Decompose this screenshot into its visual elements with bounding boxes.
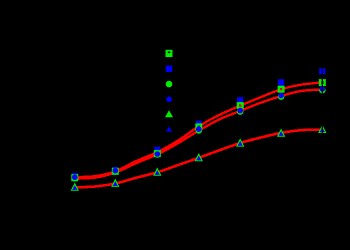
marker: blue filled square, point 1 <box>72 173 78 179</box>
marker: green open triangle, point 7 <box>319 127 325 133</box>
red fit curve: circles series <box>75 90 322 179</box>
marker: blue filled square, point 6 <box>278 79 284 85</box>
marker: green filled circle, point 6 <box>278 93 285 100</box>
marker: blue filled circle, point 7 <box>320 86 326 92</box>
right axis spine (black, over last cluster) <box>322 20 323 220</box>
marker: green filled circle, point 2 <box>112 168 119 175</box>
red fit curve: squares series <box>75 82 322 177</box>
marker: blue filled circle, point 4 <box>196 126 202 132</box>
marker: blue filled square, point 7 <box>319 68 325 74</box>
marker: green open square, point 4 <box>196 125 201 130</box>
marker: green filled circle, point 4 <box>196 127 203 134</box>
marker: green open square, point 1 <box>72 175 77 180</box>
marker: blue filled triangle, point 1 <box>72 185 77 190</box>
marker: green open triangle, point 3 <box>154 169 160 175</box>
legend: green filled circle sample <box>166 81 173 88</box>
marker: green open triangle, point 6 <box>278 130 284 136</box>
marker: blue filled square, point 2 <box>112 167 118 173</box>
marker: green filled circle, point 5 <box>237 108 244 115</box>
marker: green open square, point 2 <box>113 169 118 174</box>
marker: blue filled square, point 5 <box>237 97 243 103</box>
marker: blue filled circle, point 6 <box>278 93 284 99</box>
marker: blue filled triangle, point 7 <box>320 127 325 132</box>
legend: blue filled circle sample <box>166 97 172 103</box>
marker: blue filled square, point 3 <box>154 147 160 153</box>
marker: green open square, point 3 <box>155 151 160 156</box>
marker: blue filled circle, point 3 <box>155 151 161 157</box>
marker: green filled circle, point 3 <box>154 151 161 158</box>
marker: blue filled square, point 4 <box>196 121 202 127</box>
legend: blue filled square sample <box>166 66 172 72</box>
marker: green filled circle, point 7 <box>319 87 326 94</box>
marker: green filled circle, point 1 <box>72 175 79 182</box>
legend: green filled triangle sample <box>165 110 173 117</box>
legend: green open square sample <box>166 50 173 57</box>
red fit curve: triangles series <box>75 130 322 188</box>
marker: green open square, point 5 <box>238 103 243 108</box>
marker: green open triangle, point 5 <box>237 140 243 146</box>
marker: green open square, point 7 <box>320 80 325 85</box>
marker: blue filled triangle, point 4 <box>196 156 201 161</box>
marker: green open triangle, point 4 <box>196 155 202 161</box>
marker: blue filled circle, point 1 <box>72 174 78 180</box>
legend: blue filled triangle sample <box>166 126 172 131</box>
marker: green open triangle, point 1 <box>72 184 78 190</box>
marker: blue filled circle, point 2 <box>113 168 119 174</box>
marker: green open square, point 6 <box>279 87 284 92</box>
marker: blue filled circle, point 5 <box>237 108 243 114</box>
marker: blue filled triangle, point 5 <box>238 141 243 146</box>
marker: blue filled triangle, point 3 <box>155 170 160 175</box>
marker: green open triangle, point 2 <box>112 180 118 186</box>
marker: blue filled triangle, point 6 <box>279 131 284 136</box>
marker: blue filled triangle, point 2 <box>113 181 118 186</box>
